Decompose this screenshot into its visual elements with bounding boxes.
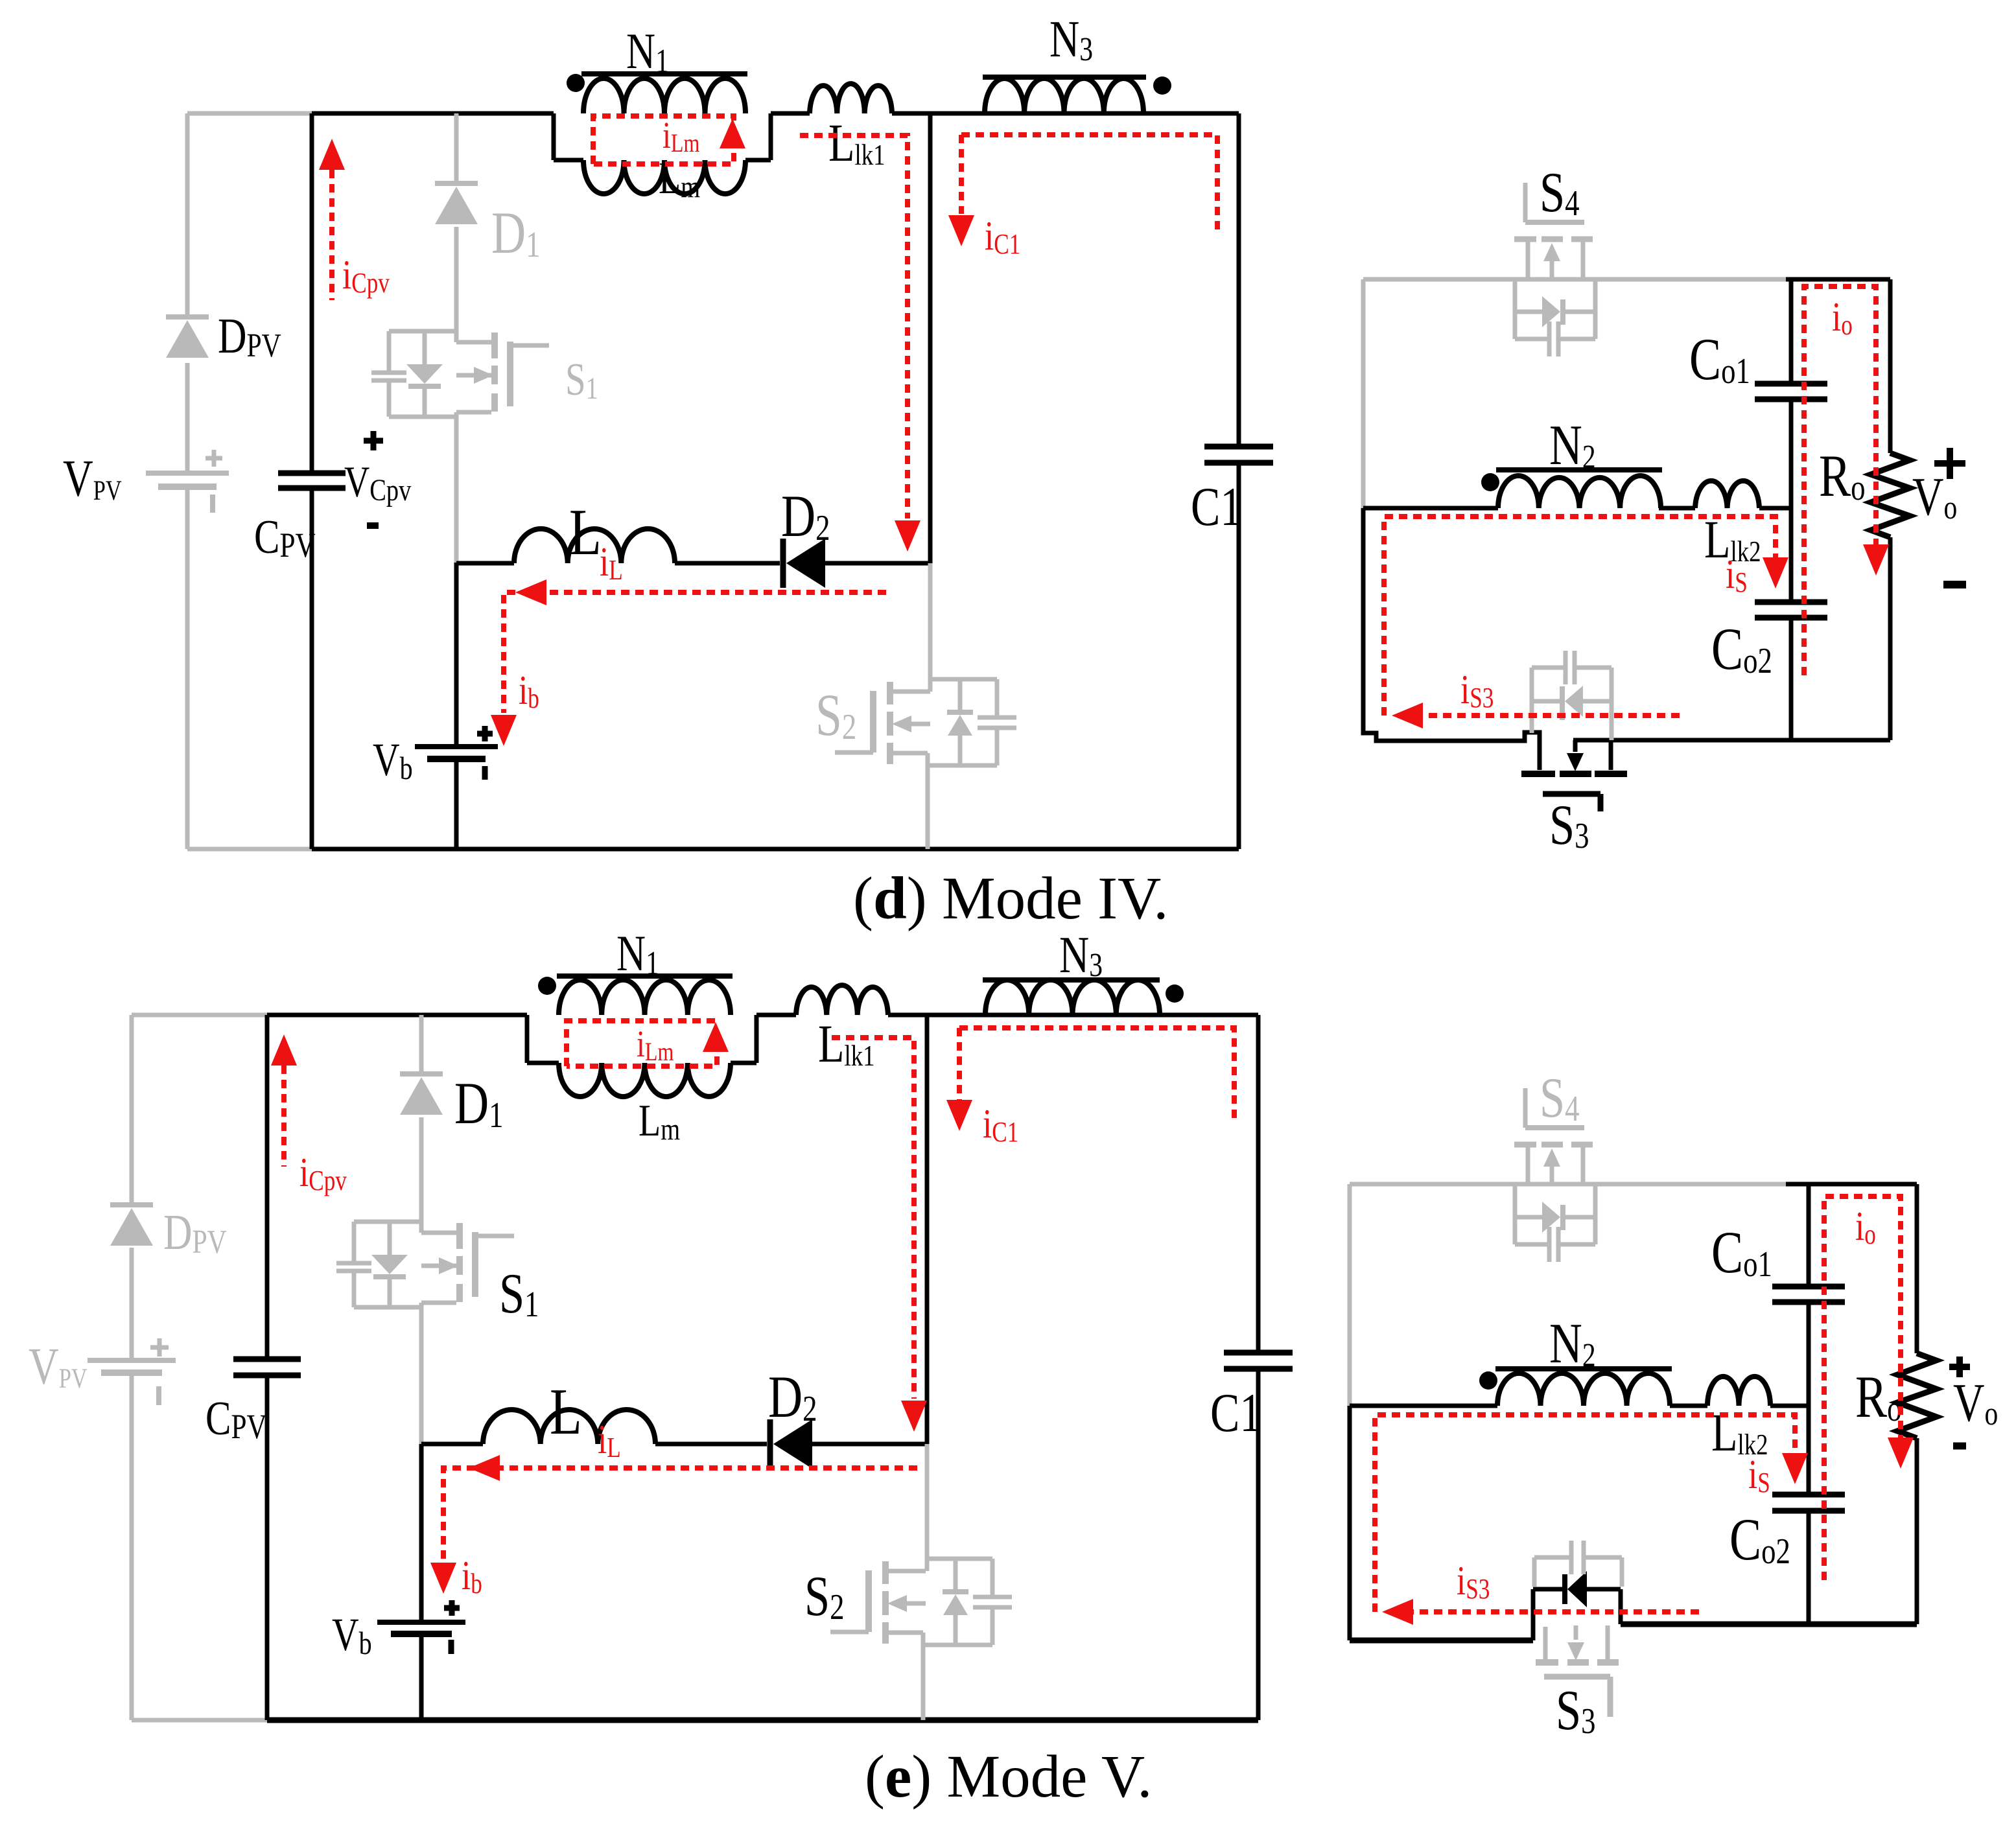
svg-text:(e) Mode V.: (e) Mode V. xyxy=(865,1743,1152,1810)
svg-text:L: L xyxy=(550,1375,582,1448)
svg-text:C1: C1 xyxy=(1191,476,1242,537)
svg-text:L: L xyxy=(569,495,602,568)
svg-text:(d) Mode IV.: (d) Mode IV. xyxy=(853,865,1169,932)
svg-text:C1: C1 xyxy=(1210,1382,1261,1443)
